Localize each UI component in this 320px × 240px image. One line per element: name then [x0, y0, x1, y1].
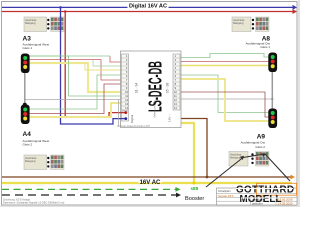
label: Digital 16V AC [128, 2, 169, 9]
svg-text:Belegung:: Belegung: [25, 22, 36, 25]
wire: branch pale yellow stub [85, 63, 123, 70]
pin dot red [124, 111, 127, 114]
wire: A8 green lamp wire [179, 54, 269, 58]
module pin numbers right [174, 54, 177, 110]
arrowhead s88 [176, 187, 181, 192]
junction yellow T [192, 181, 195, 184]
svg-text:14: 14 [174, 106, 177, 110]
svg-text:Gleis 1: Gleis 1 [23, 46, 33, 50]
svg-text:S5 - S8: S5 - S8 [166, 82, 170, 93]
connector legend A8 [232, 17, 269, 32]
logo GOTTHARD [236, 185, 294, 205]
wire: booster black dashed [2, 194, 177, 196]
svg-text:A4: A4 [23, 131, 32, 138]
arrowhead diagonal [240, 156, 244, 160]
wire: yellow 16V AC line (bottom) [2, 182, 292, 185]
wire: s88 green dashed [2, 188, 176, 190]
svg-text:Booster: Booster [185, 196, 204, 202]
module power terminal (bottom-left) [122, 111, 129, 121]
wire: Digital red bus (top) [2, 11, 294, 13]
module right terminal strip [173, 54, 180, 110]
svg-text:Gleis 2: Gleis 2 [23, 142, 33, 146]
mast A8/A9 [271, 72, 273, 109]
drawing frame border [2, 2, 298, 206]
svg-text:10: 10 [125, 90, 128, 94]
wire: red power tip into module [120, 112, 126, 114]
svg-text:12: 12 [125, 98, 128, 102]
svg-text:Littfinski DatenTechnik (LDT): Littfinski DatenTechnik (LDT) [117, 124, 150, 128]
svg-text:16V ~: 16V ~ [168, 114, 172, 122]
connector legend A9 [229, 152, 269, 167]
wire: A8 red lamp wire [179, 61, 269, 63]
arrowhead booster [176, 193, 181, 198]
wire: branch red stub [110, 56, 123, 62]
mast A3/A4 [24, 73, 26, 105]
svg-text:Signale KZ'S: Signale KZ'S [218, 194, 234, 198]
svg-text:Belegung:: Belegung: [233, 22, 244, 25]
page right/bottom edge shading [298, 0, 300, 207]
title block table [217, 188, 298, 205]
junction mast gray [271, 98, 273, 100]
svg-text:Digital: Digital [130, 115, 134, 124]
wire: red vertical drop from red bus [65, 12, 126, 118]
svg-text:11: 11 [174, 94, 177, 98]
arrowhead red bus [293, 9, 298, 14]
svg-text:Ausfahrsignal Ost: Ausfahrsignal Ost [241, 140, 266, 144]
signal A8 [268, 53, 277, 73]
wire: A8 yellow lamp wire [179, 65, 269, 67]
svg-text:(Version 1.1): (Version 1.1) [153, 100, 157, 117]
junction blue bus [59, 6, 62, 9]
svg-text:MODELL: MODELL [240, 194, 282, 205]
svg-text:Gleis 1: Gleis 1 [260, 45, 270, 49]
signal A9 [268, 109, 277, 129]
module left terminal strip [122, 54, 129, 110]
svg-text:Schaltplan: Schaltplan [218, 189, 231, 193]
svg-text:16V AC: 16V AC [140, 180, 161, 186]
svg-text:Belegung:: Belegung: [25, 160, 36, 163]
wire: A3 green lamp wire [29, 56, 123, 96]
wire: yellow 16V AC feed from module [179, 123, 194, 183]
arrowhead orange on brown line [291, 175, 296, 180]
wire: blue vertical drop from blue bus [61, 7, 127, 124]
wire: gray leader at module bottom-left [118, 100, 120, 127]
label: 16V AC [138, 178, 162, 183]
signal A4 [21, 105, 30, 125]
arrow: diagonal pointer left [206, 154, 290, 187]
wire: A4 yellow lamp wire [29, 103, 123, 117]
connector legend A3 [24, 17, 64, 32]
wire: right common gray [179, 98, 273, 100]
svg-text:s88: s88 [191, 186, 199, 191]
junction mast dot [23, 103, 27, 107]
svg-text:Dateiname: Schaltplan-Signale: Dateiname: Schaltplan-Signale-LS-DEC-DB-… [3, 202, 65, 205]
svg-text:Belegung:: Belegung: [230, 157, 241, 160]
wire: A4 green lamp wire [29, 75, 123, 109]
junction red bus [64, 10, 67, 13]
wire: blue vertical overlay over A3 legend [60, 16, 62, 33]
wire: A9 yellow lamp wire [179, 79, 269, 121]
module LS-DEC-DB body [121, 51, 182, 128]
pin dot blue [124, 117, 127, 120]
wire: brown 16V AC feed from module [179, 119, 207, 178]
wire: brown 16V AC line (bottom) [2, 176, 291, 178]
svg-text:Digital 16V AC: Digital 16V AC [129, 3, 168, 9]
title block orange highlight box [257, 183, 297, 195]
wire: A3 yellow lamp wire [29, 63, 123, 92]
svg-text:10: 10 [174, 90, 177, 94]
wire: A9 red lamp wire [179, 92, 269, 117]
svg-text:13: 13 [125, 102, 128, 106]
arrowhead blue bus [293, 5, 298, 10]
svg-text:12: 12 [174, 98, 177, 102]
svg-text:Gleis 2: Gleis 2 [255, 145, 265, 149]
signal A3 [21, 54, 30, 74]
wire: left common gray [25, 99, 124, 101]
svg-text:14: 14 [125, 106, 128, 110]
wire: A3 red lamp wire [29, 60, 123, 81]
wire: A9 green lamp wire [179, 75, 269, 113]
svg-text:S1 - S4: S1 - S4 [135, 82, 139, 93]
junction brown T [206, 176, 209, 179]
wire: blue power tip into module [120, 118, 126, 120]
wire: A4 red lamp wire [29, 84, 123, 114]
wire: branch pale green stub [93, 60, 123, 67]
module pin numbers left [125, 54, 128, 110]
svg-text:13: 13 [174, 102, 177, 106]
connector legend A4 [24, 155, 64, 170]
wire: Digital blue bus (top) [2, 6, 294, 8]
